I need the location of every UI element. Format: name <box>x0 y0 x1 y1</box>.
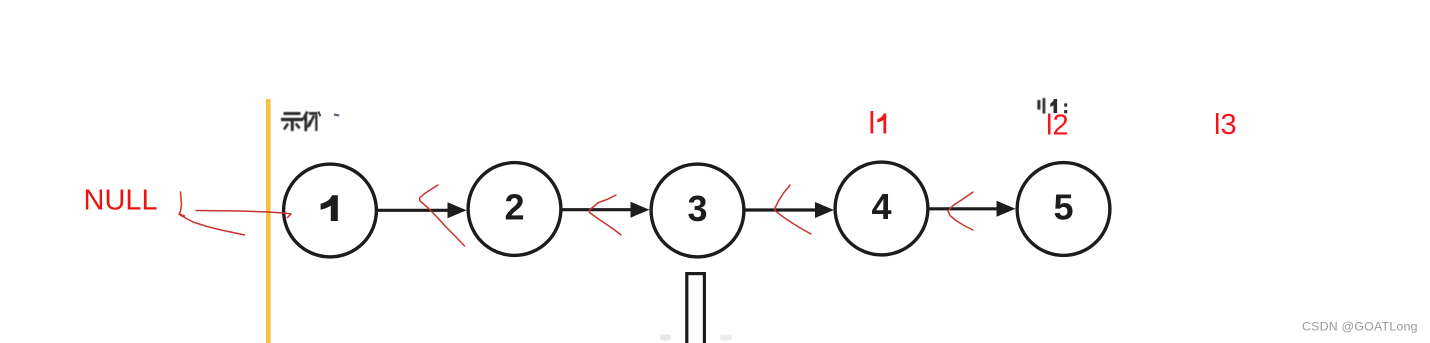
yellow margin line <box>266 99 271 343</box>
faint eraser smudge left <box>660 335 671 341</box>
red NULL pointer tick <box>179 192 185 216</box>
svg-text:2: 2 <box>504 187 524 228</box>
red check mark 4 <box>948 192 973 230</box>
remnant tick after covered text <box>318 112 320 117</box>
wire arrow 3 to 4 <box>744 202 835 218</box>
pointer slot rectangle below node 3 <box>687 274 705 343</box>
wire arrow 4 to 5 <box>928 201 1016 217</box>
wire arrow 1 to 2 <box>377 202 467 218</box>
heading CJK text "示例" (drawn strokes) <box>281 112 318 132</box>
node 3 <box>651 164 744 257</box>
red check mark 1 <box>420 185 465 246</box>
svg-text:l3: l3 <box>1214 109 1237 141</box>
svg-text:NULL: NULL <box>84 185 158 217</box>
remnant text "1:" <box>1050 99 1067 113</box>
node 4 <box>835 162 928 255</box>
red check mark 2 <box>589 195 621 235</box>
node 2 <box>468 163 561 256</box>
red lower stroke under NULL line <box>180 215 245 235</box>
remnant dash of covered text <box>334 113 339 116</box>
wire arrow 2 to 3 <box>561 202 650 218</box>
svg-text:5: 5 <box>1053 187 1073 228</box>
svg-text:3: 3 <box>687 188 707 229</box>
label l1 <box>871 111 887 134</box>
svg-text:CSDN @GOATLong: CSDN @GOATLong <box>1302 320 1418 334</box>
svg-text:l2: l2 <box>1046 110 1069 142</box>
node 1 <box>284 164 377 257</box>
remnant CJK "刂" of covered heading "示例 1:" <box>1037 98 1045 114</box>
node 5 <box>1017 163 1110 256</box>
red line NULL to node 1 <box>196 211 291 218</box>
faint eraser smudge right <box>720 335 732 341</box>
red check mark 3 <box>775 185 812 234</box>
svg-text:4: 4 <box>871 186 891 227</box>
